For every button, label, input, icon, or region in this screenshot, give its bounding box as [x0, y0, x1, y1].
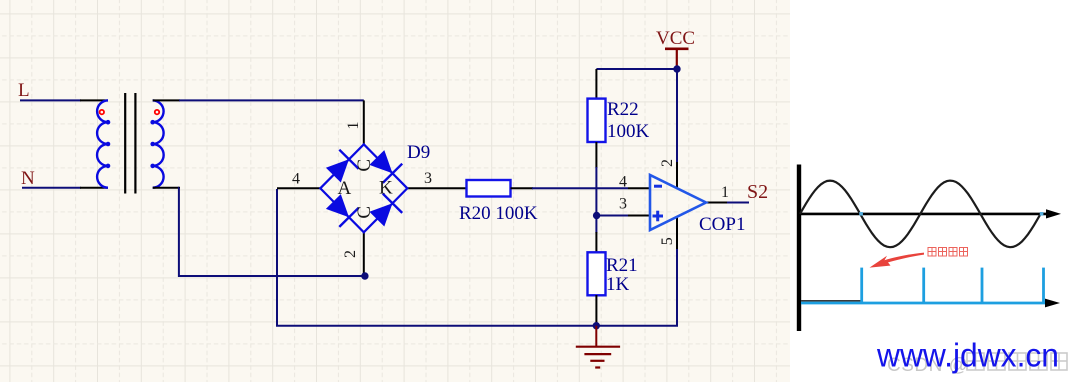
junction dot ground node [593, 322, 600, 329]
transformer secondary pin top [153, 99, 180, 101]
R22 bottom pin / wire to divider node [595, 142, 597, 168]
diode bottom-left (bar + arrow) [339, 208, 358, 227]
svg-text:K: K [379, 178, 393, 199]
svg-text:2: 2 [659, 159, 676, 167]
wire N to transformer [22, 187, 81, 189]
transformer secondary winding [153, 100, 164, 187]
svg-text:L: L [18, 80, 30, 101]
wire bridge pin 4 down to ground rail [277, 189, 677, 326]
junction dot divider node [593, 212, 600, 219]
svg-text:VCC: VCC [656, 28, 695, 49]
red annotation text (CJK strokes) [928, 248, 968, 257]
wire op-amp output to S2 [727, 202, 749, 204]
svg-text:4: 4 [292, 171, 300, 188]
wire R22 top to VCC [596, 68, 677, 70]
op-amp minus [654, 185, 662, 188]
resistor R20 [467, 180, 511, 197]
svg-text:1K: 1K [606, 274, 630, 295]
op-amp plus [653, 215, 664, 218]
pulse 1 [860, 268, 863, 304]
cyan marks on sine axis [859, 212, 863, 216]
transformer primary pin bottom [80, 187, 108, 189]
wire secondary bottom to bridge pin 2 [179, 188, 365, 276]
svg-text:100K: 100K [607, 121, 650, 142]
transformer primary polarity dot [100, 110, 104, 114]
svg-text:5: 5 [659, 237, 676, 245]
diode bottom-right (bar + arrow) [383, 194, 402, 213]
svg-text:C: C [354, 206, 375, 219]
svg-text:R22: R22 [607, 99, 639, 120]
bridge D9 pin 4 [277, 187, 320, 189]
wire VCC down to op-amp pin 2 [676, 69, 678, 162]
diode top-left (bar + arrow) [339, 150, 358, 169]
bridge D9 pin 2 [363, 232, 365, 277]
bridge D9 diamond body [320, 144, 407, 232]
pulse baseline black overlay [801, 300, 862, 302]
transformer primary winding [97, 100, 108, 187]
svg-text:C: C [354, 159, 375, 172]
svg-text:S2: S2 [747, 181, 768, 203]
pulse 2 [922, 268, 925, 304]
resistor R22 [595, 69, 597, 99]
pulse 3 [981, 268, 984, 304]
svg-text:N: N [21, 168, 35, 189]
pulse 4 [1042, 268, 1045, 304]
svg-text:1: 1 [721, 184, 729, 201]
pulse baseline arrowhead [1045, 299, 1060, 308]
schematic sheet background [0, 0, 790, 382]
transformer primary pin top [80, 99, 108, 101]
bridge D9 pin 1 [363, 100, 365, 145]
op-amp COP1 pins black stubs [628, 187, 650, 189]
gray watermark CJK glyph blocks [967, 353, 1067, 370]
wire L to transformer [20, 99, 81, 101]
resistor R21 [595, 232, 597, 253]
op-amp COP1 triangle [650, 175, 706, 230]
sine wave [800, 181, 1040, 248]
svg-text:2: 2 [342, 250, 359, 258]
junction dot VCC node [673, 65, 680, 72]
svg-text:COP1: COP1 [699, 214, 745, 235]
R20 right pin [511, 187, 534, 189]
svg-text:www.jdwx.cn: www.jdwx.cn [876, 336, 1059, 373]
wire divider node to op-amp pin 3 [596, 215, 628, 217]
svg-text:4: 4 [619, 174, 627, 191]
diode top-right (bar + arrow) [383, 164, 402, 183]
svg-text:3: 3 [619, 196, 627, 213]
svg-text:A: A [338, 178, 352, 199]
waveform panel background [790, 0, 1072, 382]
sine axis [799, 213, 1048, 216]
vertical axis bar [797, 165, 801, 332]
svg-text:D9: D9 [407, 142, 430, 163]
R21 bottom pin [595, 295, 597, 326]
svg-text:R20 100K: R20 100K [459, 203, 538, 224]
junction dot bridge pin2 node [361, 272, 368, 279]
svg-text:1: 1 [345, 122, 362, 130]
ground symbol [595, 326, 597, 347]
wire R20 to op-amp pin 4 [532, 187, 628, 189]
svg-text:3: 3 [424, 170, 432, 187]
red annotation arrow [870, 253, 925, 268]
transformer core [124, 93, 126, 194]
pulse baseline (cyan) [801, 302, 1047, 305]
svg-text:R21: R21 [606, 255, 638, 276]
transformer secondary polarity dot [155, 110, 159, 114]
transformer secondary pin bottom [153, 187, 180, 189]
wire secondary top to bridge pin 1 [179, 99, 364, 101]
bridge D9 pin 3 [407, 187, 466, 189]
